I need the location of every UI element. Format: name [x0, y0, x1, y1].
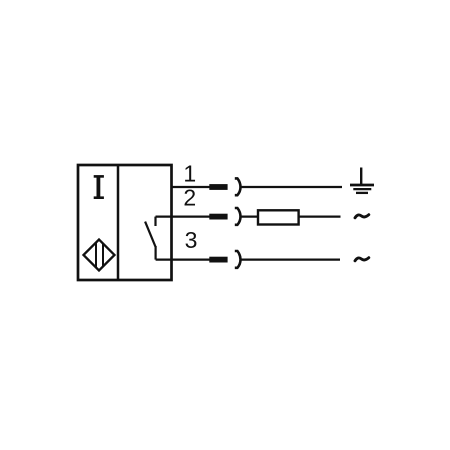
diamond inner line left: [95, 243, 97, 267]
sensor body outline: [78, 165, 172, 280]
svg-text:1: 1: [183, 161, 196, 187]
inductive symbol I: [94, 176, 104, 197]
connector pin 3: [209, 257, 227, 263]
connector pin 1: [209, 184, 227, 190]
switch bottom vertical: [155, 246, 157, 260]
AC tilde line 3: [355, 258, 369, 261]
resistor: [258, 210, 299, 224]
diamond inner line right: [102, 244, 104, 267]
wire lead 3 with switch stub: [156, 259, 210, 261]
switch top tick: [154, 217, 156, 226]
wire lead 2 with switch stub: [156, 216, 210, 218]
earth ground: [350, 168, 374, 193]
connector pin 2: [209, 214, 227, 220]
sensor body divider: [117, 165, 120, 280]
switch blade: [145, 222, 156, 247]
proximity sensor diamond: [84, 240, 115, 271]
wire 2 to resistor: [241, 216, 258, 218]
svg-text:3: 3: [185, 227, 198, 253]
connector socket 3: [235, 251, 241, 268]
connector socket 1: [235, 178, 241, 195]
wire 1 to earth: [241, 186, 342, 188]
wire 2 after resistor: [299, 216, 341, 218]
svg-text:2: 2: [183, 185, 196, 211]
connector socket 2: [235, 208, 241, 225]
wire lead 1: [171, 186, 210, 188]
AC tilde line 2: [355, 215, 369, 218]
wire 3: [241, 259, 340, 261]
